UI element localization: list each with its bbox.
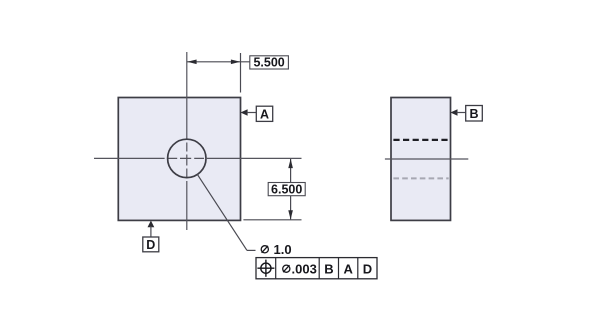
dimension 5.500 value box	[250, 56, 289, 69]
svg-text:A: A	[260, 107, 269, 121]
feature control frame dividers	[275, 258, 277, 279]
dimension 5.500 right arrowhead	[231, 60, 240, 65]
horizontal centerline	[94, 157, 302, 159]
dimension 6.500 line	[290, 159, 292, 220]
datum D leader line	[150, 226, 152, 237]
side view rectangle	[391, 98, 451, 221]
side view horizontal centerline	[385, 158, 468, 160]
datum B box	[466, 106, 483, 122]
hole circle	[168, 139, 206, 177]
datum A box	[256, 106, 272, 121]
vertical centerline	[186, 52, 188, 230]
svg-text:1.0: 1.0	[274, 242, 292, 257]
svg-text:D: D	[363, 261, 372, 276]
hole leader horizontal tail	[247, 249, 256, 251]
datum D box	[143, 237, 159, 252]
dimension 6.500 up arrowhead	[288, 159, 293, 168]
dimension 6.500 bottom extension line	[243, 219, 301, 221]
hole leader diagonal line	[197, 174, 247, 250]
front view square face	[118, 98, 240, 221]
svg-text:B: B	[324, 261, 333, 276]
svg-text:A: A	[344, 261, 354, 276]
svg-text:B: B	[469, 107, 478, 121]
hole diameter note	[261, 242, 291, 257]
dimension 5.500 extension line right	[240, 53, 242, 93]
feature control frame outer box	[256, 258, 377, 279]
svg-text:D: D	[146, 238, 155, 252]
side view hidden hole line (dark dashed)	[393, 139, 448, 141]
svg-text:6.500: 6.500	[271, 182, 302, 196]
datum B leader line	[456, 112, 465, 114]
dimension 5.500 left arrowhead	[187, 60, 196, 65]
dimension 6.500 value box	[268, 183, 305, 196]
datum D leader triangle	[148, 221, 155, 228]
tolerance value ø.003	[283, 261, 317, 276]
svg-text:.003: .003	[292, 261, 317, 276]
dimension 6.500 down arrowhead	[288, 210, 293, 219]
side view hidden line (light dashed)	[393, 177, 448, 179]
svg-text:5.500: 5.500	[253, 56, 284, 70]
dimension 5.500 line	[187, 61, 250, 63]
datum A leader triangle	[241, 109, 248, 116]
datum B leader triangle	[450, 109, 457, 116]
datum A leader line	[247, 112, 257, 114]
position tolerance symbol	[257, 260, 274, 277]
